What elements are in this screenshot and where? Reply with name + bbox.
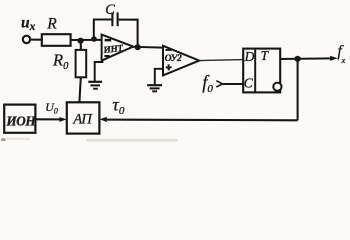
resistor R (42, 34, 71, 46)
svg-text:x: x (341, 55, 346, 65)
arrow into AP left side (59, 117, 66, 122)
input terminal uₓ (23, 36, 30, 43)
arrow to f (330, 56, 337, 61)
svg-text:D: D (244, 49, 255, 64)
block ION (reference source) (4, 105, 35, 133)
resistor R0 (76, 50, 87, 77)
D flip-flop T (243, 49, 280, 93)
wire tau0 bottom run (105, 119, 298, 122)
node B (feedback junction) (91, 36, 97, 42)
svg-text:R: R (46, 16, 57, 33)
wire non-inverting input to ground (95, 62, 104, 81)
wire R to op-amp input (71, 39, 102, 41)
wire feedback to capacitor (93, 18, 112, 20)
wire comparator output to D input (199, 60, 243, 61)
plus mark U2 (166, 64, 172, 70)
svg-text:АП: АП (72, 111, 93, 127)
wire terminal to R (30, 39, 41, 41)
svg-text:C: C (244, 75, 254, 90)
node A (junction to R0) (78, 38, 84, 44)
non-inverting input mark (104, 55, 109, 57)
ground (op-amp U1) (88, 82, 102, 89)
svg-text:ОУ2: ОУ2 (165, 53, 182, 64)
scan smudge band (decorative) (86, 139, 178, 142)
op-amp U2 (comparator) (163, 46, 199, 76)
block AP (analog switch) (67, 102, 100, 133)
wire comparator plus input to ground (155, 69, 163, 85)
svg-text:ИОН: ИОН (5, 113, 36, 128)
wire capacitor to output node (119, 20, 138, 47)
svg-text:C: C (105, 2, 115, 18)
wire flip-flop output to f (280, 57, 331, 60)
node D (output junction) (295, 56, 301, 62)
inverting input mark (105, 39, 112, 42)
arrow f0 (216, 81, 222, 87)
wire node D down (297, 59, 299, 121)
op-amp U1 (integrator) (102, 35, 134, 61)
arrow into AP right side (100, 117, 107, 122)
flip-flop divider (254, 49, 256, 93)
wire ION to AP (35, 118, 61, 120)
wire op-amp output to comparator (133, 46, 163, 49)
wire node A down to R0 (80, 41, 82, 50)
capacitor C (112, 12, 117, 26)
wire f0 to C input (223, 83, 244, 85)
node C (op-amp output junction) (135, 44, 141, 50)
inverting input mark U2 (165, 49, 171, 51)
inverted output bubble (273, 83, 281, 91)
ground (comparator U2) (147, 85, 162, 91)
wire feedback up (93, 20, 95, 40)
wire R0 to AP switch (79, 77, 80, 102)
